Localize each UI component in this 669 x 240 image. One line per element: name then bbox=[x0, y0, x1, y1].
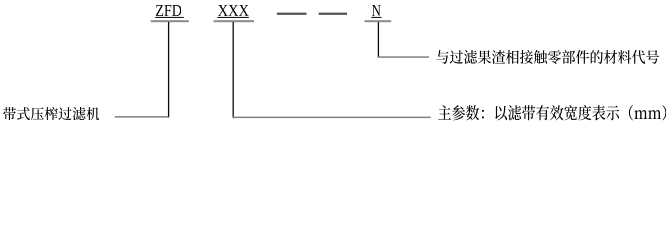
text: belt-type press filter machine bbox=[3, 107, 100, 120]
dash separator 2 bbox=[319, 13, 347, 15]
underline under N field bbox=[371, 17, 381, 18]
underline under ZFD field bbox=[155, 17, 184, 18]
field bar under N bbox=[365, 20, 392, 22]
label ZFD (type code) bbox=[156, 5, 181, 16]
label N (material code) bbox=[372, 5, 381, 16]
label XXX (size field) bbox=[218, 5, 249, 16]
text: main parameter is effective belt width (mm) bbox=[438, 105, 666, 121]
wire: vertical leader from XXX bbox=[233, 22, 234, 118]
designation line layer: field bars, dashes and leader wires bbox=[0, 0, 669, 130]
wire: horizontal leader to ZFD description bbox=[115, 116, 169, 118]
wire: vertical leader from N bbox=[378, 22, 379, 58]
field bar under XXX bbox=[214, 20, 254, 22]
text: material code of parts contacting filtered pomace bbox=[436, 50, 659, 64]
dash separator 1 bbox=[277, 13, 307, 15]
field bar under ZFD bbox=[151, 20, 189, 22]
wire: horizontal leader to XXX description bbox=[233, 117, 431, 119]
underline under XXX field bbox=[217, 17, 249, 18]
wire: vertical leader from ZFD bbox=[168, 22, 169, 118]
wire: horizontal leader to N description bbox=[378, 56, 429, 58]
